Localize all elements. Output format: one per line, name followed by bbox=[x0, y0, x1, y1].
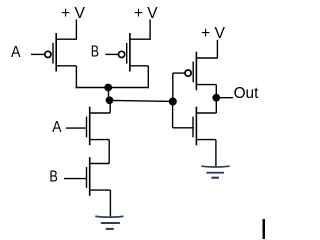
svg-text:+ V: + V bbox=[134, 5, 158, 22]
wire between junction dots bbox=[108, 88, 110, 101]
wire NAND output node horizontal (upper) bbox=[76, 87, 149, 89]
wire inverter input dropper (down to Q6 gate) bbox=[172, 102, 174, 128]
wire NMOS A drain up to node bbox=[109, 100, 111, 113]
wire output stub to Out label bbox=[216, 97, 233, 99]
svg-text:A: A bbox=[11, 44, 21, 61]
wire Q3 source to Q4 drain bbox=[108, 140, 110, 164]
transistor Q2 (PMOS, input B) bbox=[105, 33, 150, 72]
transistor Q1 (PMOS, input A) bbox=[31, 33, 76, 72]
transistor Q5 (PMOS, output inverter) bbox=[173, 52, 218, 90]
text cursor artifact (bottom right) bbox=[263, 219, 266, 239]
node junction dot 4 (output) bbox=[212, 94, 220, 102]
wire Q6 source down to ground bbox=[215, 140, 217, 166]
wire Q5 source to +V bbox=[216, 40, 218, 59]
wire inverter input riser (up to Q5 gate) bbox=[172, 73, 174, 101]
node junction dot 1 bbox=[104, 84, 112, 92]
node junction dot 2 bbox=[106, 96, 114, 104]
svg-text:B: B bbox=[49, 168, 57, 185]
wire Q2 source to +V bbox=[149, 20, 151, 40]
svg-text:+ V: + V bbox=[201, 25, 225, 42]
transistor Q4 (NMOS, input B) bbox=[64, 157, 110, 196]
wire Q1 source to +V bbox=[75, 20, 77, 40]
wire NAND output node to inverter input (lower horizontal) bbox=[110, 100, 173, 101]
transistor Q3 (NMOS, input A) bbox=[66, 107, 110, 146]
ground (right, below Q6) bbox=[201, 166, 229, 178]
wire Q1 drain down to NAND output node bbox=[75, 66, 77, 88]
svg-text:Out: Out bbox=[234, 85, 259, 102]
wire Q5 drain down to Q6 drain (output node) bbox=[215, 85, 217, 113]
wire Q2 drain down to NAND output node bbox=[147, 66, 149, 88]
transistor Q6 (NMOS, output inverter) bbox=[173, 107, 217, 146]
svg-text:+ V: + V bbox=[61, 5, 85, 22]
node junction dot 3 (inverter input) bbox=[169, 98, 177, 106]
wire Q4 source down to ground bbox=[109, 190, 111, 216]
ground (left, below Q4) bbox=[95, 216, 123, 229]
svg-text:A: A bbox=[52, 119, 61, 136]
svg-text:B: B bbox=[91, 44, 99, 61]
